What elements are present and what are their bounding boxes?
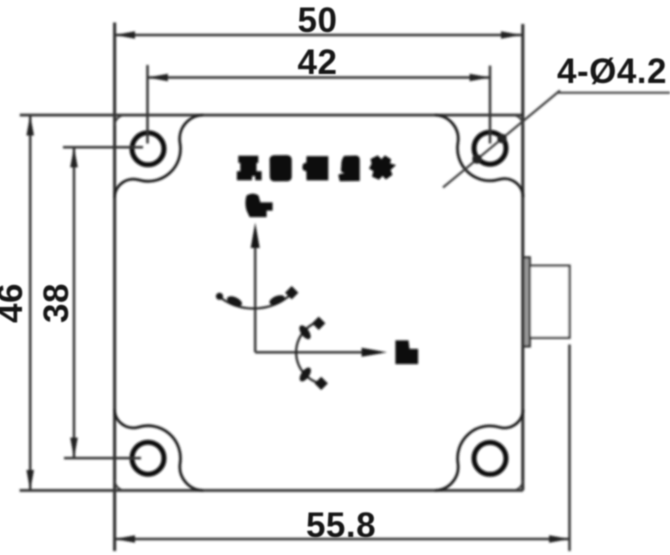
- dim 50 line: [115, 34, 522, 37]
- axes: vertical: [254, 246, 257, 352]
- dim 55.8 right extension: [568, 345, 571, 552]
- hole BL: [132, 442, 164, 474]
- dim text 46 (rotated): [0, 273, 31, 333]
- dim 38 line: [73, 147, 76, 458]
- axis label X (right): [396, 341, 418, 364]
- dim 42 extension lines: [146, 65, 149, 144]
- corner radius arcs: [115, 115, 126, 125]
- hole BR: [474, 442, 506, 474]
- body outline left edge + extension lines: [113, 23, 116, 552]
- dim text 38 (rotated): [37, 273, 77, 333]
- label 4-O4.2: [557, 52, 667, 92]
- axes: horizontal: [255, 351, 364, 354]
- leader 4-O4.2: [557, 92, 670, 94]
- hole TR: [474, 132, 506, 164]
- dim 38 extension lines: [63, 146, 143, 149]
- dim text 50: [285, 1, 350, 41]
- dim text 42: [285, 43, 350, 83]
- dim 42 line: [148, 76, 491, 79]
- CJK blob 1: [238, 156, 261, 179]
- CJK blob 4: [339, 156, 359, 180]
- roll arc: [296, 322, 321, 384]
- hole TL: [132, 133, 164, 165]
- dim 55.8 line: [115, 538, 570, 541]
- body top edge + left extension: [20, 114, 523, 117]
- yaw arc: [219, 293, 292, 308]
- connector flange: [523, 257, 529, 346]
- axis label Z (top): [246, 194, 272, 216]
- connector body: [530, 266, 570, 338]
- dim text 55.8: [301, 506, 381, 546]
- CJK blob 5: [370, 156, 395, 179]
- body bottom edge + left extension: [20, 489, 523, 492]
- CJK blob 2: [270, 156, 291, 181]
- CJK blob 3: [303, 157, 327, 180]
- body right edge + top extension: [521, 24, 524, 490]
- corner lobe TR: [435, 115, 524, 197]
- corner lobe BR: [435, 409, 524, 490]
- dim 46 line: [29, 115, 32, 490]
- corner lobe TL: [115, 115, 204, 198]
- corner lobe BL: [115, 409, 204, 490]
